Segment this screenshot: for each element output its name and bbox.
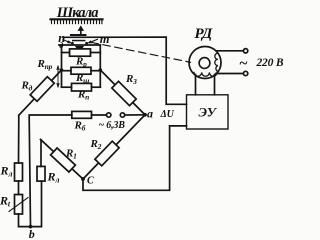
- svg-text:Rпр: Rпр: [37, 58, 53, 71]
- svg-text:С: С: [87, 176, 94, 187]
- svg-text:а: а: [147, 107, 153, 121]
- svg-text:Rд: Rд: [21, 80, 33, 93]
- svg-text:Rл: Rл: [0, 164, 12, 179]
- svg-text:Rл: Rл: [47, 170, 60, 185]
- svg-text:~ 6,3В: ~ 6,3В: [99, 120, 126, 131]
- svg-text:РД: РД: [195, 26, 213, 42]
- svg-text:m: m: [100, 32, 110, 46]
- svg-text:b: b: [29, 227, 35, 239]
- svg-text:ЭУ: ЭУ: [199, 105, 218, 120]
- svg-text:220 В: 220 В: [256, 57, 284, 69]
- svg-text:Rt: Rt: [0, 194, 11, 209]
- svg-text:R2: R2: [90, 138, 102, 151]
- svg-text:ΔU: ΔU: [160, 109, 175, 120]
- svg-text:R3: R3: [125, 73, 137, 86]
- svg-text:R1: R1: [65, 148, 77, 161]
- svg-text:~: ~: [239, 56, 248, 72]
- svg-text:Rр: Rр: [75, 56, 87, 69]
- svg-text:Rб: Rб: [74, 120, 86, 133]
- svg-text:Шкала: Шкала: [56, 5, 98, 21]
